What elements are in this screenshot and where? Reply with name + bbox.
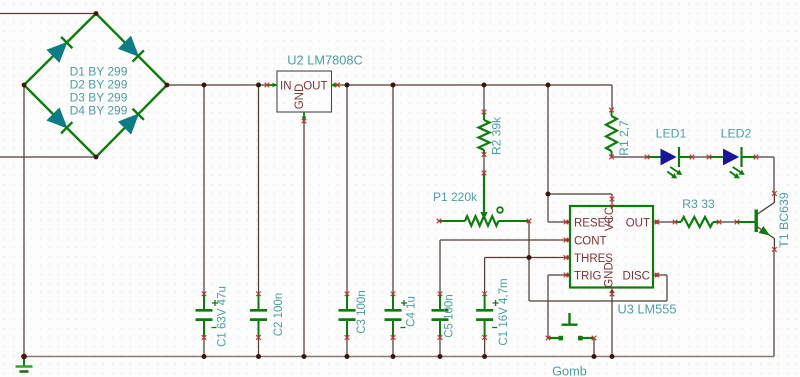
wire C5 bottom (439, 338, 441, 357)
diode D3 (47, 108, 72, 133)
node gnd-C5 (438, 354, 443, 359)
label C1 16V 4,7m (498, 278, 510, 345)
label LED1 (656, 127, 687, 141)
label C5 100n (444, 294, 456, 337)
svg-text:VCC: VCC (604, 207, 616, 231)
node gnd-C3 (345, 354, 350, 359)
node gnd-C1 (202, 354, 207, 359)
wire emitter to rail (773, 250, 775, 357)
wire node A to VCC (548, 194, 612, 204)
bridge edge top-right wire (96, 14, 167, 86)
LED LED2 (707, 147, 759, 179)
node rail-C1 (202, 83, 207, 88)
wire ground rail bottom (24, 356, 774, 358)
wire C2 bottom (258, 338, 260, 357)
wire AC input bottom (0, 156, 96, 158)
svg-text:T1 BC639: T1 BC639 (777, 192, 791, 248)
label D3 BY 299 (70, 91, 128, 105)
bridge edge left-bottom wire (24, 85, 96, 157)
svg-text:CONT: CONT (574, 236, 607, 248)
node gnd-button (592, 354, 597, 359)
wire rail to node A (547, 85, 549, 194)
wire C4 top drop (392, 85, 394, 294)
node top vertex (94, 11, 99, 16)
node rail-C2 (256, 83, 261, 88)
wire negative rail left drop (23, 85, 25, 357)
wire THRES to C6 (485, 258, 567, 295)
wire LED1 to LED2 (692, 156, 709, 158)
wire U3 GND to rail (611, 294, 613, 357)
wire R3 to base (719, 221, 737, 223)
svg-text:C5 100n: C5 100n (444, 294, 456, 337)
resistor R2 (479, 110, 490, 157)
wire AC input top (0, 13, 96, 15)
node rail-R2 (482, 83, 487, 88)
svg-text:LED1: LED1 (656, 127, 687, 141)
label C4 1u (406, 296, 418, 327)
wire CONT to C5 (440, 240, 567, 294)
switch Gomb button (546, 313, 597, 340)
node A vcc/reset (546, 192, 551, 197)
label C2 100n (273, 293, 285, 336)
wire C4 bottom (392, 338, 394, 357)
svg-text:DISC: DISC (623, 271, 650, 283)
wire U2 GND drop (303, 121, 305, 357)
svg-text:OUT: OUT (303, 81, 327, 93)
label U3 LM555 (617, 302, 676, 317)
svg-text:D4 BY 299: D4 BY 299 (70, 104, 128, 118)
node bottom vertex (94, 155, 99, 160)
label T1 BC639 (777, 192, 791, 248)
svg-text:GND: GND (604, 262, 616, 288)
regulator U2 LM7808C (265, 71, 340, 123)
wire TRIG to button (548, 275, 567, 338)
node right vertex (165, 83, 170, 88)
svg-text:C3 100n: C3 100n (356, 290, 368, 333)
svg-text:U3 LM555: U3 LM555 (617, 302, 676, 317)
wire C1 bottom (203, 338, 205, 357)
label D1 BY 299 (70, 65, 128, 79)
wire R2 to P1 wiper (483, 155, 485, 173)
pin label VCC (604, 207, 616, 231)
wire OUT to R3 (657, 221, 675, 223)
svg-text:IN: IN (280, 81, 292, 93)
label C1 63V 47u (217, 286, 229, 347)
wire R1 to LED1 (612, 156, 648, 158)
node gnd-C4 (391, 354, 396, 359)
resistor R1 (606, 108, 617, 160)
label P1 220k (433, 190, 478, 204)
svg-text:LED2: LED2 (721, 127, 752, 141)
svg-text:D2 BY 299: D2 BY 299 (70, 78, 128, 92)
pin label TRIG (574, 271, 602, 283)
label D4 BY 299 (70, 104, 128, 118)
svg-text:TRIG: TRIG (574, 271, 602, 283)
wire C3 top drop (346, 85, 348, 294)
wire C6 bottom (484, 338, 486, 357)
svg-text:C1 63V 47u: C1 63V 47u (217, 286, 229, 347)
svg-text:R1 2,7: R1 2,7 (617, 120, 631, 156)
pin label RESET (574, 218, 612, 230)
wire button right to rail (593, 338, 595, 357)
capacitor C5 100n (432, 292, 449, 340)
label D2 BY 299 (70, 78, 128, 92)
label R3 33 (682, 197, 715, 211)
svg-text:P1 220k: P1 220k (433, 190, 478, 204)
svg-text:R3 33: R3 33 (682, 197, 715, 211)
node rail-C3 (345, 83, 350, 88)
diode D2 (119, 37, 144, 62)
capacitor C4 1u (385, 292, 408, 340)
pin label OUT (626, 218, 650, 230)
wire C3 bottom (346, 338, 348, 357)
capacitor C2 100n (250, 292, 267, 340)
svg-text:U2 LM7808C: U2 LM7808C (287, 53, 362, 68)
wire node A to RESET (548, 194, 567, 222)
pin label THRES (574, 253, 613, 265)
diode D4 (119, 109, 144, 134)
label C3 100n (356, 290, 368, 333)
svg-text:OUT: OUT (626, 218, 650, 230)
label U2 LM7808C (287, 53, 362, 68)
wire C2 top drop (258, 85, 260, 294)
bridge edge left-top wire (24, 14, 96, 86)
node left vertex (22, 83, 27, 88)
capacitor C3 100n (339, 292, 356, 340)
node gnd-U2 (302, 354, 307, 359)
node THRES junction (527, 255, 532, 260)
node ground corner (21, 354, 27, 360)
svg-text:C1 16V 4,7m: C1 16V 4,7m (498, 278, 510, 345)
svg-text:D3 BY 299: D3 BY 299 (70, 91, 128, 105)
wire U2 OUT to rail end (338, 84, 613, 86)
pin label DISC (623, 271, 650, 283)
op-amp U3 LM555 (564, 197, 660, 297)
node gnd-U3 (610, 354, 615, 359)
svg-text:D1 BY 299: D1 BY 299 (70, 65, 128, 79)
label LED2 (721, 127, 752, 141)
svg-text:GND: GND (294, 84, 306, 110)
label Gomb (552, 364, 587, 377)
svg-text:C4 1u: C4 1u (406, 296, 418, 327)
wire THRES node to DISC (529, 275, 667, 301)
label R2 39k (490, 116, 504, 155)
wire rail to R2 (483, 85, 485, 112)
capacitor C1 16V 4,7m (476, 292, 499, 340)
pin label OUT (303, 81, 327, 93)
wire C1 top drop (203, 85, 205, 294)
svg-text:C2 100n: C2 100n (273, 293, 285, 336)
capacitor C1 63V 47u (196, 292, 219, 340)
wire rail corner down to R1 (611, 85, 613, 110)
node gnd-C2 (256, 354, 261, 359)
resistor R3 (673, 217, 740, 227)
pin label IN (280, 81, 292, 93)
pin label GND U2 (294, 84, 306, 110)
label R1 2,7 (617, 120, 631, 156)
wire bridge output to U2 IN (167, 84, 267, 86)
pin label GND U3 (604, 262, 616, 288)
transistor T1 BC639 (737, 191, 777, 252)
diode D1 (47, 37, 72, 62)
node rail-C4 (391, 83, 396, 88)
pin label CONT (574, 236, 607, 248)
bridge edge bottom-right wire (96, 85, 167, 157)
node rail-555 (546, 83, 551, 88)
svg-text:R2 39k: R2 39k (490, 116, 504, 155)
wire LED2 to collector corner (756, 157, 774, 194)
node gnd-C6 (482, 354, 487, 359)
potentiometer P1 (437, 171, 532, 226)
ground (16, 357, 33, 372)
wire P1 to THRES node (528, 221, 530, 301)
svg-text:Gomb: Gomb (552, 364, 587, 377)
LED LED1 (645, 147, 695, 179)
